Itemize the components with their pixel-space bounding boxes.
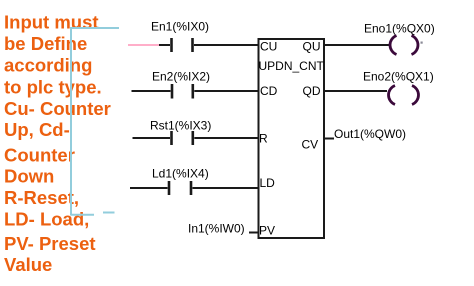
- svg-text:Value: Value: [4, 254, 52, 275]
- contact Rst1: [172, 131, 193, 145]
- svg-text:CV: CV: [302, 138, 319, 152]
- coil Eno1: [390, 36, 418, 55]
- wire En1 pink segment: [128, 44, 159, 46]
- svg-text:R: R: [259, 132, 268, 146]
- svg-text:Eno1(%QX0): Eno1(%QX0): [364, 22, 435, 36]
- contact Ld1: [169, 181, 191, 195]
- svg-text:Rst1(%IX3): Rst1(%IX3): [150, 119, 211, 133]
- wire QD output to coil Eno2: [325, 90, 387, 92]
- wire En2 from left: [132, 90, 171, 92]
- svg-text:PV: PV: [259, 224, 275, 238]
- svg-text:CU: CU: [260, 40, 277, 54]
- wire En1 to contact: [159, 44, 170, 46]
- svg-text:Input must: Input must: [4, 12, 99, 33]
- wire Rst1 contact to block R: [194, 137, 258, 139]
- svg-text:CD: CD: [260, 84, 278, 98]
- svg-text:QU: QU: [303, 40, 321, 54]
- svg-text:Eno2(%QX1): Eno2(%QX1): [363, 70, 434, 84]
- svg-text:LD- Load,: LD- Load,: [4, 209, 89, 230]
- wire Ld1 from left: [130, 187, 168, 189]
- svg-text:PV- Preset: PV- Preset: [4, 233, 96, 254]
- wire En1 contact to block CU: [194, 44, 258, 46]
- svg-text:Up, Cd-: Up, Cd-: [4, 119, 70, 140]
- svg-text:LD: LD: [260, 176, 276, 190]
- svg-text:En1(%IX0): En1(%IX0): [151, 20, 209, 34]
- svg-text:En2(%IX2): En2(%IX2): [152, 70, 210, 84]
- callout line bottom dash: [103, 212, 115, 214]
- svg-text:In1(%IW0): In1(%IW0): [188, 222, 245, 236]
- wire Ld1 contact to block LD: [193, 187, 259, 189]
- callout line top segment: [70, 27, 119, 29]
- callout line vertical segment: [70, 27, 72, 216]
- svg-text:Down: Down: [4, 166, 54, 187]
- wire In1 to block PV: [249, 232, 258, 234]
- svg-text:Ld1(%IX4): Ld1(%IX4): [152, 167, 209, 181]
- svg-text:QD: QD: [303, 84, 321, 98]
- svg-text:according: according: [4, 55, 92, 76]
- coil Eno2: [389, 86, 419, 105]
- svg-text:Cu- Counter: Cu- Counter: [4, 98, 111, 119]
- svg-text:to plc type.: to plc type.: [4, 77, 102, 98]
- wire QU output to coil Eno1: [325, 44, 389, 46]
- wire Rst1 from left: [133, 137, 171, 139]
- svg-text:Counter: Counter: [4, 145, 75, 166]
- svg-text:be Define: be Define: [4, 33, 87, 54]
- contact En2: [172, 84, 193, 99]
- svg-text:R-Reset,: R-Reset,: [4, 187, 79, 208]
- contact En1: [172, 38, 193, 52]
- svg-text:UPDN_CNT: UPDN_CNT: [259, 59, 325, 73]
- svg-text:Out1(%QW0): Out1(%QW0): [334, 127, 406, 141]
- stray mark right of coil Eno1: [421, 42, 423, 44]
- callout line bottom segment: [71, 214, 94, 216]
- note text: input definition annotation: [4, 12, 111, 275]
- function block U1 UPDN_CNT: [259, 39, 325, 238]
- wire En2 contact to block CD: [194, 90, 258, 92]
- wire CV output: [325, 138, 334, 140]
